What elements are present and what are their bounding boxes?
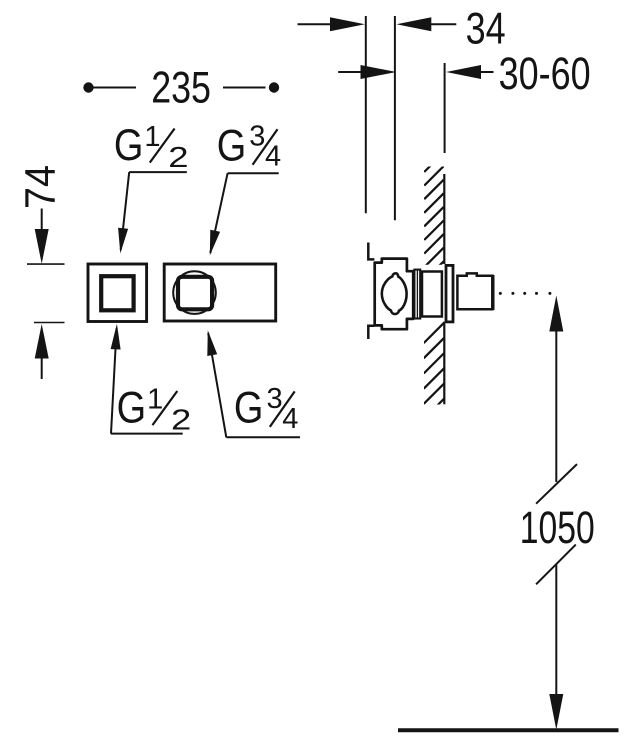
- svg-text:4: 4: [282, 403, 298, 435]
- svg-text:74: 74: [16, 165, 64, 209]
- svg-text:34: 34: [466, 4, 506, 53]
- svg-text:G: G: [217, 122, 247, 171]
- svg-text:G: G: [234, 384, 264, 433]
- svg-text:3: 3: [249, 121, 265, 153]
- svg-text:3: 3: [267, 383, 283, 415]
- svg-text:235: 235: [151, 64, 211, 113]
- svg-text:1: 1: [144, 121, 160, 153]
- svg-text:30-60: 30-60: [499, 48, 591, 99]
- svg-text:1: 1: [147, 384, 163, 416]
- svg-text:1050: 1050: [520, 502, 595, 553]
- svg-text:2: 2: [168, 142, 188, 174]
- svg-text:G: G: [114, 121, 143, 170]
- svg-text:4: 4: [265, 141, 281, 173]
- svg-text:G: G: [117, 384, 146, 433]
- svg-text:2: 2: [171, 404, 191, 436]
